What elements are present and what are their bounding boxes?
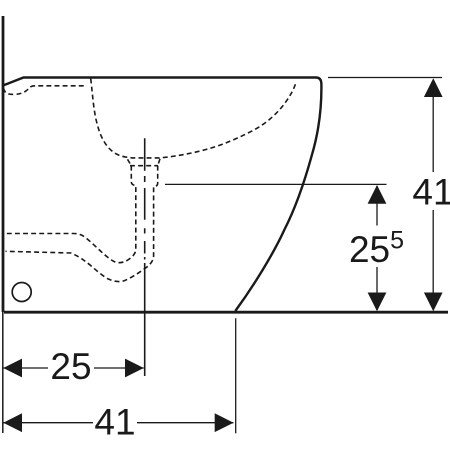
bidet top edge and back profile — [3, 78, 321, 312]
dimension line 41 right — [432, 80, 434, 310]
dashed rim contour left — [4, 86, 88, 95]
arrow left 41 bottom — [3, 413, 22, 432]
svg-text:41: 41 — [412, 171, 450, 212]
arrow up 25.5 — [368, 185, 387, 204]
arrow down 25.5 — [368, 293, 387, 312]
svg-text:25: 25 — [50, 346, 91, 387]
arrow up 41 right — [424, 78, 443, 97]
centerline of drain — [144, 138, 146, 376]
extension line mid (25.5 top) — [165, 183, 387, 185]
dimension line 25 bottom — [3, 367, 144, 369]
arrow right 25 — [125, 359, 144, 378]
arrow down 41 right — [424, 293, 443, 312]
arrow left 25 — [3, 359, 22, 378]
dimension line 41 bottom — [3, 422, 233, 424]
extension line bottom right 41 — [235, 318, 237, 433]
wall — [2, 16, 5, 312]
dashed funnel left wall — [6, 166, 136, 263]
extension line top right — [328, 77, 442, 79]
wall extension line below floor — [2, 312, 4, 433]
svg-text:41: 41 — [94, 401, 135, 442]
svg-text:255: 255 — [349, 226, 404, 270]
floor — [4, 311, 448, 314]
arrow right 41 bottom — [215, 413, 234, 432]
dashed funnel right wall — [6, 166, 158, 282]
dashed bowl interior contour — [91, 79, 296, 158]
dimension line 25.5 — [376, 186, 378, 310]
fixing hole circle — [12, 283, 31, 302]
dashed drain funnel — [128, 159, 161, 166]
